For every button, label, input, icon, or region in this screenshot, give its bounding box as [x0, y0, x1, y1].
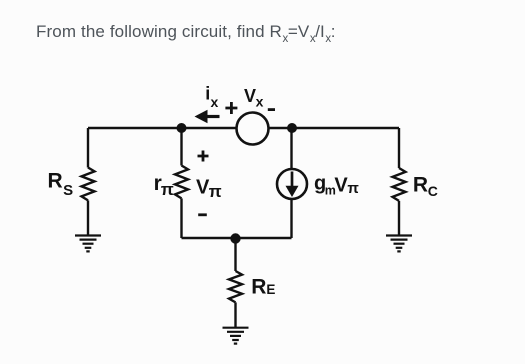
svg-text:E: E [266, 282, 275, 297]
wire r-pi to bottom node [180, 198, 182, 238]
svg-text:R: R [48, 170, 63, 193]
svg-text:x: x [256, 94, 264, 110]
svg-text:π: π [161, 180, 174, 199]
ground (left, under RS) [75, 236, 101, 252]
current source arrowhead [286, 186, 299, 197]
svg-text:π: π [347, 180, 359, 197]
wire RE branch vertical [234, 238, 236, 271]
node dot left (r-pi top) [177, 123, 187, 133]
wire current-source branch top [290, 128, 292, 169]
resistor RC [393, 168, 406, 201]
wire r-pi branch vertical top [180, 128, 182, 166]
voltage source Vx (circle on top wire) [237, 113, 269, 145]
ground (right, under RC) [386, 236, 412, 252]
label - (Vx) [268, 108, 275, 111]
ix arrow shaft [206, 115, 220, 118]
svg-text:V: V [334, 175, 348, 197]
svg-text:V: V [244, 86, 256, 106]
node dot right (current source top) [287, 123, 297, 133]
wire right vertical (RC branch) [398, 128, 400, 168]
current source arrow shaft [291, 172, 294, 188]
svg-text:x: x [211, 94, 219, 110]
svg-text:C: C [428, 183, 438, 199]
svg-text:π: π [209, 182, 222, 201]
wire top horizontal [88, 127, 399, 129]
label - (Vpi) [198, 213, 207, 216]
svg-text:R: R [413, 174, 428, 197]
node dot bottom (RE top) [230, 233, 240, 243]
dependent current source gmVpi circle [277, 169, 307, 199]
svg-text:S: S [63, 182, 73, 199]
resistor r-pi [175, 166, 188, 199]
wire RE to ground [234, 302, 236, 327]
ground (bottom, under RE) [223, 328, 249, 344]
wire current-source branch bottom [290, 199, 292, 238]
instruction text [36, 22, 336, 44]
label + (Vpi) [198, 151, 209, 162]
ix arrowhead [195, 110, 208, 123]
resistor RE [229, 271, 242, 302]
svg-text:R: R [251, 276, 266, 299]
wire RS to ground [87, 200, 89, 235]
wire left vertical (RS branch) [87, 128, 89, 168]
wire RC to ground [398, 201, 400, 236]
label + (Vx) [225, 102, 237, 114]
wire bottom horizontal [182, 237, 292, 239]
resistor RS [82, 168, 95, 201]
